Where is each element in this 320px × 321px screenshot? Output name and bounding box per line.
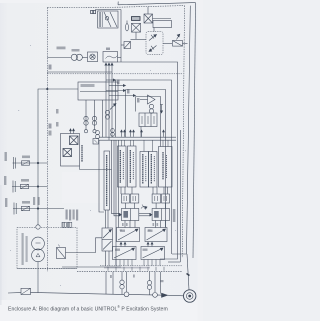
field breaker assembly box [61,134,80,167]
relay box [103,52,118,63]
thyristor converter V4 [141,247,165,260]
bottom bus wire [8,292,21,294]
excitation transformer T01 [32,237,45,262]
module card A5 wide [159,147,173,188]
wire xbox2 drop [135,32,137,39]
enclosure A dashed border bottom [77,271,182,273]
breaker contact Q1 [70,136,79,145]
terminal block dark [132,17,141,21]
winding pair below amp [149,104,153,113]
fuse field flash [21,288,31,294]
module card A4 [149,152,158,188]
op-amp AVR triangle [140,95,155,104]
CT pair b [92,116,96,125]
wire field link [62,266,121,268]
electronics bus line 1 [99,136,176,138]
junction dot [47,88,49,90]
S drops to rail [106,251,110,266]
wire outer frame right [193,3,196,258]
module card A3 [140,152,149,188]
CT pair a [84,116,88,125]
generator feeder vertical [187,254,190,290]
thyristor arrow 1 [149,35,157,41]
CT pair small [96,131,100,139]
changeover symbol [141,205,147,210]
wire xbox up [147,7,149,14]
wire crowbar to resistor [163,42,172,44]
nested enclosure step 2 [126,90,166,228]
thyristor arrow 2 [149,46,157,52]
generator G1 [184,290,196,302]
aux box m [93,139,99,145]
dashed bottom rail upper [100,265,182,267]
dashed bottom rail T01 [17,267,77,269]
wire supply top [95,9,121,11]
arrow down small [160,105,163,114]
nested step left drops [116,80,136,137]
enclosure inner solid border right [172,6,190,254]
isolator circle [36,225,40,229]
gate drops to converters [125,221,166,228]
aux converter stack S [102,228,113,251]
arrow single c [141,130,143,137]
arrow single d [163,130,165,137]
enclosure A dashed border top [47,6,184,8]
left feeder bend [99,140,104,212]
transformer T02 supply box [98,11,118,28]
wire outer frame top [118,3,196,5]
measurement box VT [78,82,118,100]
arrow diag on bus [110,104,116,110]
wire crowbar up [153,28,155,32]
wire frame tick [117,2,119,5]
long verticals left of rack [116,140,119,266]
pulse drops to gate interface [125,203,165,209]
terminal circles row [84,130,96,133]
thyristor converter V2 [145,228,167,242]
inter arrows V1 [120,242,126,246]
bus verticals to rack [106,72,112,140]
gate interface box A [121,209,138,221]
module card A1 [118,146,127,187]
module card M0 [104,151,110,210]
wire resistor to frame [183,42,188,44]
thyristor converter V3 [113,247,137,260]
wire T01 to bus [37,262,39,293]
caption text [8,305,168,313]
drop c with CT [120,272,124,295]
signal tap d [109,95,136,97]
wide flat box [153,21,172,28]
long inner vertical [179,130,181,262]
wire y72 [47,71,112,73]
wire gate unit drop [140,127,142,138]
crowbar dashed box [146,32,163,55]
CT measuring pair top [47,54,87,60]
signal arrows up triple [105,63,113,72]
auxiliary box k [57,245,66,259]
inner enclosure bottom return [168,261,180,263]
hatch label pair [62,222,72,227]
diode box D1 [121,42,131,49]
enclosure A dashed border right [182,6,184,258]
meter box [88,52,98,62]
drop e with CT [147,272,151,295]
drop d terminal [124,272,129,297]
thyristor converter V1 [117,228,140,242]
CT pair bus left [111,129,115,137]
fuse F2 pill [126,21,129,31]
pulse amplifier box a2 [130,194,138,203]
measuring line aux [13,203,64,215]
resistor R discharge [173,34,183,46]
measuring line U [13,157,48,169]
inter arrows V2 [147,242,153,246]
drop a [105,272,107,294]
nested enclosure step 1 [116,80,172,254]
drop b [112,272,114,295]
breaker contact Q2 [63,149,72,157]
card drops to pulse stage [121,187,168,194]
wire relay to bus [118,56,122,58]
pulse amplifier box b1 [152,194,160,203]
wire y89 from main CB [38,89,78,226]
terminal ticks bottom rails [108,267,164,271]
arrow pair b [130,130,135,137]
wire horizontal y62 [118,62,178,259]
tiny label smudges [4,47,175,283]
signal tap c [106,90,126,92]
electronics bus line 2 [99,139,176,141]
wire bus vertical x121 [120,10,122,63]
pulse amplifier box b2 [162,194,170,203]
wire y18.5 [153,18,172,20]
breaker Q02 x-box [132,23,141,32]
arrow pair a [121,130,126,137]
pulse amplifier box a1 [121,194,129,203]
double arrow into box A [112,140,122,216]
terminal squares [91,10,96,13]
wire assembly out corner [79,166,81,170]
breaker Q03 x-box [144,14,153,23]
dashed divider y73.5 [47,73,182,75]
assembly arrows up [70,129,75,134]
module card A2 [128,146,137,187]
wire assembly out [80,169,112,171]
assembly label text [81,145,83,162]
converter output ticks [116,260,160,266]
CT pair on bus [105,110,109,119]
double arrow A to B [139,214,152,216]
measuring line I [12,181,47,193]
drop g [160,272,162,294]
enclosure A dashed border left [46,8,48,272]
bus stubs to cards [122,140,169,151]
signal tap b [109,85,126,87]
signal tap a [106,79,116,81]
drop f terminal [153,272,158,298]
excitation transformer dashed box [17,228,77,269]
VT secondary lines [86,100,103,137]
gate interface box B [152,209,169,221]
nested enclosure step 3 [136,97,161,147]
wire D1 right [131,38,147,40]
wire V feed [66,238,103,253]
gate unit box [139,113,157,127]
M0 drops [106,210,109,228]
wedge arrow [162,293,168,297]
